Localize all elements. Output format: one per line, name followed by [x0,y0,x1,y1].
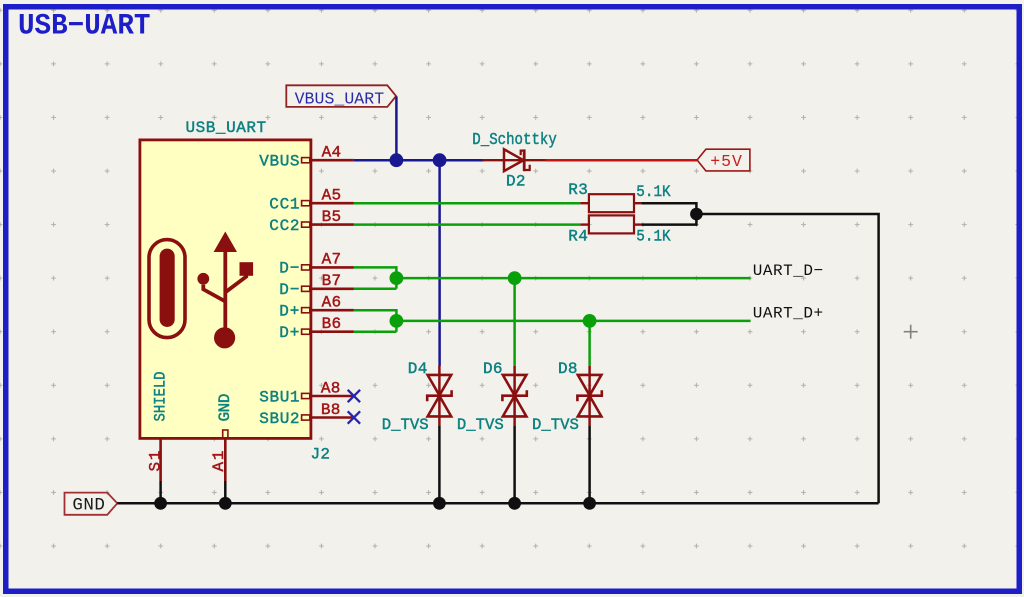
svg-text:A8: A8 [321,379,341,397]
wire black R3 right then down [642,203,697,214]
wire black D4 to GND rail [438,426,441,503]
wire green CC2 to R4 [354,223,580,226]
wire green D- net to UART_D- [396,277,750,280]
svg-text:D−: D− [279,260,299,278]
no-connect X on SBU2 [348,411,360,423]
diode D2 D_Schottky [472,131,557,190]
svg-text:A4: A4 [322,144,342,162]
pin D+ (B6) [279,315,354,342]
pin CC1 (A5) [269,187,354,214]
wire red from D2 to +5V [524,159,546,161]
resistor R3 5.1K [568,181,671,212]
svg-text:USB−UART: USB−UART [18,9,151,43]
power flag +5V [697,149,750,171]
pin D+ (A6) [279,294,354,321]
wire green down to TVS D6 [513,278,516,366]
junction green D+ [390,314,404,328]
pin SBU2 (B8) [259,401,354,428]
junction on VBUS at TVS riser [433,153,447,167]
svg-text:J2: J2 [311,446,331,464]
pin SBU1 (A8) [259,379,354,406]
wire black S1 to GND rail [159,481,162,503]
svg-text:B6: B6 [322,315,342,333]
pin CC2 (B5) [269,208,354,235]
wire blue down to TVS D4 [438,160,441,366]
global label VBUS_UART [286,85,396,108]
svg-text:UART_D−: UART_D− [753,262,823,280]
svg-text:CC1: CC1 [269,196,299,214]
svg-text:B7: B7 [322,272,342,290]
wire green A6 stub [354,310,397,332]
svg-text:USB_UART: USB_UART [186,119,267,137]
svg-text:D+: D+ [279,324,299,342]
wire black A1 to GND rail [224,481,227,503]
wire green D+ net to UART_D+ [396,320,750,323]
wire green down to TVS D8 [588,321,591,366]
TVS diode D6 [457,360,527,434]
pin GND (A1) [210,394,234,482]
junction green D- at D6 riser [508,271,522,285]
junction GND at D8 [583,497,596,510]
pin VBUS (A4) [259,144,354,171]
wire black D6 to GND rail [513,426,516,503]
svg-text:R4: R4 [568,228,588,246]
svg-text:A7: A7 [322,251,342,269]
svg-text:D4: D4 [408,360,428,378]
svg-text:D_TVS: D_TVS [457,416,504,434]
svg-text:A6: A6 [322,294,342,312]
svg-text:D_TVS: D_TVS [532,416,579,434]
TVS diode D4 [382,360,452,434]
svg-text:SBU1: SBU1 [259,388,299,406]
USB icon inside J2 [149,232,253,349]
wire black R4 right then up [642,214,697,225]
junction on VBUS at label riser [390,153,404,167]
wire green CC1 to R3 [354,202,580,205]
svg-text:S1: S1 [146,451,164,472]
junction green D+ at D8 riser [583,314,597,328]
TVS diode D8 [532,360,602,434]
connector J2 symbol body [140,140,311,439]
svg-text:D8: D8 [558,360,578,378]
wire black GND rail [117,502,878,505]
junction GND at D6 [508,497,521,510]
svg-text:SHIELD: SHIELD [152,372,170,422]
svg-text:D_Schottky: D_Schottky [472,131,557,150]
svg-text:R3: R3 [568,181,588,199]
pin D- (B7) [279,272,354,299]
pin SHIELD (S1) [146,372,169,482]
resistor R4 5.1K [568,215,671,245]
junction GND at S1 [154,497,167,510]
junction black CC merge [690,208,703,221]
wire green B7 stub [354,288,397,291]
junction green D- [390,271,404,285]
svg-text:5.1K: 5.1K [636,183,671,201]
svg-text:D+: D+ [279,303,299,321]
wire green B6 stub [354,330,397,333]
svg-text:GND: GND [72,496,105,516]
no-connect X on SBU1 [348,390,360,402]
svg-text:CC2: CC2 [269,217,299,235]
svg-text:VBUS: VBUS [259,153,299,171]
svg-text:D6: D6 [483,360,503,378]
svg-text:VBUS_UART: VBUS_UART [295,90,385,109]
wire black CC junction to right edge [696,214,878,503]
svg-text:UART_D+: UART_D+ [753,305,823,323]
wire black D8 to GND rail [588,426,591,503]
svg-text:B8: B8 [321,401,341,419]
svg-text:5.1K: 5.1K [636,228,671,246]
junction GND at A1 [219,497,232,510]
wire green A7 stub [354,267,397,288]
svg-text:A5: A5 [322,187,342,205]
power flag GND [65,493,118,516]
svg-text:D−: D− [279,281,299,299]
svg-text:D_TVS: D_TVS [382,416,429,434]
wire blue VBUS horizontal segment [354,159,484,162]
pin D- (A7) [279,251,354,278]
svg-text:B5: B5 [322,208,342,226]
svg-text:D2: D2 [506,172,526,190]
wire blue from VBUS_UART label down to VBUS net [395,97,398,161]
svg-text:GND: GND [216,394,234,422]
svg-text:+5V: +5V [710,152,742,171]
svg-text:SBU2: SBU2 [259,410,299,428]
svg-text:A1: A1 [210,451,228,472]
junction GND at D4 [433,497,446,510]
